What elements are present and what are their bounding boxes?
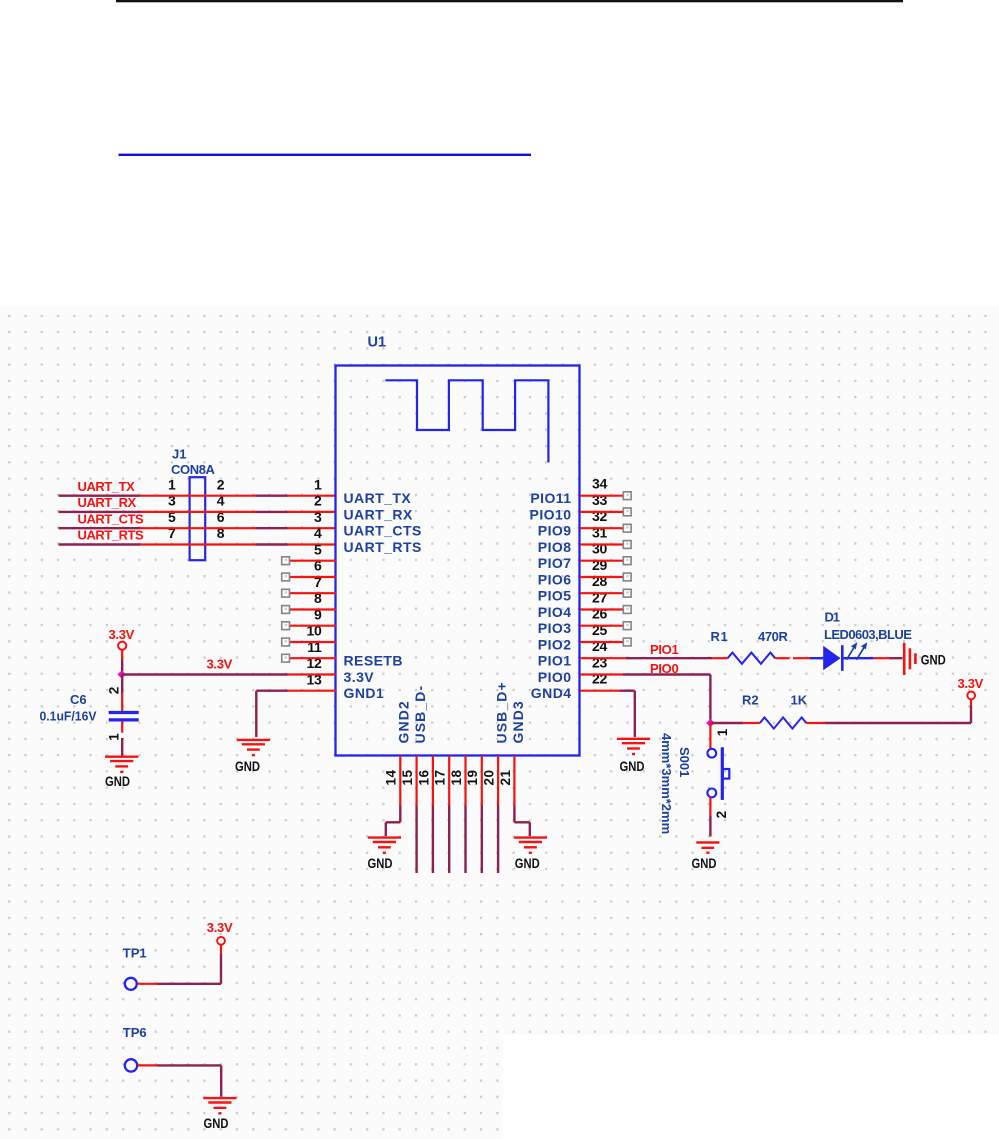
U1 pin 14 stub [399, 756, 401, 806]
net labels UART_TX/RX/CTS/RTS [78, 479, 145, 543]
ground GND1 [235, 740, 270, 774]
svg-text:PIO2: PIO2 [538, 636, 572, 652]
U1 pin 31 no-connect stub [580, 541, 631, 549]
svg-text:UART_CTS: UART_CTS [78, 511, 145, 526]
svg-text:20: 20 [482, 769, 497, 785]
svg-text:4: 4 [314, 525, 322, 541]
U1 pin 21 stub [513, 756, 515, 806]
svg-text:14: 14 [384, 769, 399, 785]
ground pin14 [368, 838, 402, 871]
C6 pin 1 wire [107, 721, 123, 755]
svg-text:15: 15 [400, 769, 415, 785]
switch S001 [659, 733, 692, 834]
svg-text:1: 1 [715, 728, 730, 736]
U1 pin 34 no-connect stub [580, 492, 631, 500]
ground right of D1 (rotated) [904, 643, 946, 675]
svg-text:C6: C6 [70, 692, 87, 707]
wire U1 pin22 GND4 [580, 691, 635, 737]
svg-text:21: 21 [498, 769, 513, 785]
svg-text:3.3V: 3.3V [109, 627, 135, 642]
svg-text:23: 23 [592, 654, 607, 670]
ground pin21 [514, 838, 547, 871]
U1 pin 20 stub [497, 756, 499, 806]
svg-text:D1: D1 [825, 609, 840, 624]
ground below C6 [105, 757, 138, 789]
J1 pin numbers 1,3,5,7 (left) and 2,4,6,8 (right) [168, 476, 225, 541]
svg-text:PIO11: PIO11 [530, 490, 571, 506]
IC U1 body [336, 366, 580, 756]
svg-text:GND: GND [515, 855, 540, 871]
svg-text:17: 17 [433, 769, 448, 785]
svg-text:UART_TX: UART_TX [78, 479, 136, 494]
ground below S001 [692, 843, 720, 872]
U1 pin 10 no-connect stub [282, 638, 336, 646]
svg-text:GND: GND [692, 855, 717, 871]
U1 bottom pin numbers 14-21 [384, 769, 513, 785]
S001 pin 2 wire [710, 796, 728, 836]
svg-text:RESETB: RESETB [344, 653, 404, 669]
wire U1 pin13 GND1 [256, 691, 336, 737]
power 3.3V terminal (TP1) [207, 920, 233, 945]
svg-text:32: 32 [592, 508, 607, 524]
wire pin14 to GND [386, 806, 401, 837]
LED D1 [793, 609, 912, 671]
svg-text:34: 34 [592, 476, 607, 492]
svg-text:2: 2 [314, 493, 322, 509]
node junction 3.3V/C6 [118, 670, 126, 678]
U1 pin 8 no-connect stub [282, 606, 336, 614]
svg-text:0.1uF/16V: 0.1uF/16V [40, 708, 97, 723]
IC U1 (bluetooth module) designator [368, 334, 387, 350]
wire pin 17 down [448, 806, 450, 874]
svg-text:PIO9: PIO9 [538, 523, 572, 539]
svg-text:UART_RTS: UART_RTS [78, 528, 145, 543]
U1 pin 33 no-connect stub [580, 508, 631, 516]
svg-text:19: 19 [465, 769, 480, 785]
svg-text:2: 2 [107, 687, 122, 695]
U1 pin 18 stub [464, 756, 466, 806]
svg-text:31: 31 [592, 524, 607, 540]
svg-text:1: 1 [168, 476, 176, 492]
svg-text:22: 22 [592, 671, 607, 687]
svg-text:UART_RX: UART_RX [344, 506, 413, 522]
U1 pin 29 no-connect stub [580, 573, 631, 581]
svg-text:GND: GND [620, 758, 645, 774]
svg-text:R1: R1 [711, 629, 729, 644]
connector J1 [171, 447, 216, 561]
power 3.3V terminal (left) [109, 627, 135, 650]
svg-text:2: 2 [714, 811, 729, 819]
wire U1 pin24 PIO1 [580, 657, 712, 659]
svg-text:PIO1: PIO1 [538, 653, 572, 669]
svg-text:3: 3 [314, 509, 322, 525]
svg-text:TP1: TP1 [123, 946, 147, 961]
net label 3.3V (mid) [207, 657, 233, 672]
svg-text:GND4: GND4 [531, 685, 572, 701]
svg-text:PIO0: PIO0 [538, 669, 572, 685]
svg-text:30: 30 [592, 541, 607, 557]
svg-text:CON8A: CON8A [171, 462, 216, 477]
svg-text:UART_RX: UART_RX [78, 495, 137, 510]
svg-text:PIO8: PIO8 [538, 539, 572, 555]
U1 right pin numbers 34-22 [592, 476, 607, 687]
grid sheet area [0, 305, 999, 1035]
wire pin 20 down [497, 806, 499, 874]
U1 pin 19 stub [481, 756, 483, 806]
test point TP1 [123, 946, 147, 990]
ground TP6 [203, 1098, 236, 1131]
U1 pin 32 no-connect stub [580, 524, 631, 532]
svg-text:UART_RTS: UART_RTS [344, 539, 422, 555]
U1 pin 25 no-connect stub [580, 638, 631, 646]
svg-text:USB_D+: USB_D+ [494, 681, 510, 743]
U1 pin 9 no-connect stub [282, 622, 336, 630]
resistor R2 [710, 693, 824, 729]
wire pin 19 down [481, 806, 483, 874]
svg-text:26: 26 [592, 606, 607, 622]
U1 pin 27 no-connect stub [580, 606, 631, 614]
svg-text:PIO3: PIO3 [538, 620, 572, 636]
svg-text:GND: GND [368, 855, 393, 871]
svg-text:33: 33 [592, 492, 607, 508]
U1 pin 17 stub [448, 756, 450, 806]
wire R2 to 3.3V [824, 700, 971, 724]
resistor R1 [711, 629, 790, 664]
top horizontal rule [116, 0, 903, 2]
svg-text:GND: GND [204, 1115, 229, 1131]
wire pin 15 down [415, 806, 417, 874]
svg-text:GND: GND [105, 773, 130, 789]
wire D1 to GND [873, 657, 902, 659]
wire U1 pin23 PIO0 [580, 675, 710, 724]
svg-text:16: 16 [416, 769, 431, 785]
node junction PIO0/R2/S001 [706, 719, 714, 727]
U1 pin 15 stub [416, 756, 418, 806]
svg-text:PIO10: PIO10 [530, 506, 572, 522]
svg-text:29: 29 [592, 557, 607, 573]
U1 right pin names [530, 490, 572, 701]
wire TP1 to 3.3V [137, 945, 221, 984]
svg-text:PIO4: PIO4 [538, 604, 572, 620]
svg-text:PIO6: PIO6 [538, 571, 572, 587]
svg-text:LED0603,BLUE: LED0603,BLUE [824, 627, 912, 642]
svg-text:U1: U1 [368, 334, 387, 350]
wire 3.3V vertical to junction [121, 650, 123, 674]
svg-text:3.3V: 3.3V [207, 657, 233, 672]
svg-text:PIO5: PIO5 [538, 588, 572, 604]
U1 pin 30 no-connect stub [580, 557, 631, 565]
U1 pin 7 no-connect stub [282, 589, 336, 597]
U1 pin 5 no-connect stub [282, 557, 336, 565]
svg-text:GND: GND [235, 758, 260, 774]
C6 pin 2 wire [107, 675, 123, 712]
capacitor C6 [40, 692, 139, 724]
ground GND4 [617, 739, 650, 774]
wire UART row 3 [59, 527, 337, 529]
svg-text:5: 5 [314, 541, 322, 557]
net label PIO1 [650, 642, 678, 657]
svg-text:2: 2 [217, 476, 225, 492]
wire pin 18 down [464, 806, 466, 874]
svg-text:GND1: GND1 [344, 685, 385, 701]
svg-text:USB_D-: USB_D- [412, 685, 428, 744]
svg-text:3.3V: 3.3V [344, 669, 375, 685]
U1 bottom pin names [396, 681, 526, 743]
test point TP6 [123, 1025, 147, 1072]
svg-text:GND2: GND2 [396, 700, 412, 743]
svg-text:1K: 1K [791, 693, 808, 708]
svg-text:4mm*3mm*2mm: 4mm*3mm*2mm [659, 733, 674, 834]
svg-text:28: 28 [592, 573, 607, 589]
U1 left pin numbers 1-13 [307, 476, 322, 687]
U1 left pin names [344, 490, 422, 701]
wire UART row 2 [59, 511, 337, 513]
svg-text:GND3: GND3 [510, 700, 526, 743]
svg-text:J1: J1 [172, 447, 186, 462]
wire pin21 to GND [514, 806, 529, 837]
svg-text:S001: S001 [677, 747, 692, 777]
svg-text:GND: GND [921, 652, 946, 668]
U1 pin 26 no-connect stub [580, 622, 631, 630]
wire 3.3V to U1 pin 12 [122, 673, 336, 675]
svg-text:PIO1: PIO1 [650, 642, 678, 657]
svg-text:TP6: TP6 [123, 1025, 147, 1040]
wire TP6 to GND [138, 1065, 222, 1096]
svg-text:24: 24 [592, 638, 607, 654]
svg-text:UART_TX: UART_TX [344, 490, 412, 506]
U1 pin 28 no-connect stub [580, 589, 631, 597]
U1 pin 11 no-connect stub [282, 654, 336, 662]
wire UART row 1 [59, 495, 337, 497]
svg-text:3.3V: 3.3V [207, 920, 233, 935]
blue hyperlink underline [119, 154, 532, 156]
svg-text:3.3V: 3.3V [958, 676, 984, 691]
svg-text:18: 18 [449, 769, 464, 785]
antenna trace inside U1 [385, 380, 548, 462]
wire UART row 4 [59, 543, 337, 545]
wire pin 16 down [432, 806, 434, 874]
svg-text:1: 1 [107, 733, 122, 741]
svg-text:27: 27 [592, 589, 607, 605]
U1 pin 6 no-connect stub [282, 573, 336, 581]
svg-text:PIO7: PIO7 [538, 555, 572, 571]
S001 pin 1 wire [710, 723, 729, 749]
S001 contacts [707, 747, 729, 800]
U1 pin 16 stub [432, 756, 434, 806]
svg-text:1: 1 [314, 476, 322, 492]
svg-text:UART_CTS: UART_CTS [344, 523, 422, 539]
svg-text:470R: 470R [758, 629, 788, 644]
svg-text:25: 25 [592, 622, 607, 638]
power 3.3V terminal (right) [958, 676, 984, 700]
svg-text:R2: R2 [742, 693, 759, 708]
net label PIO0 [650, 661, 678, 676]
